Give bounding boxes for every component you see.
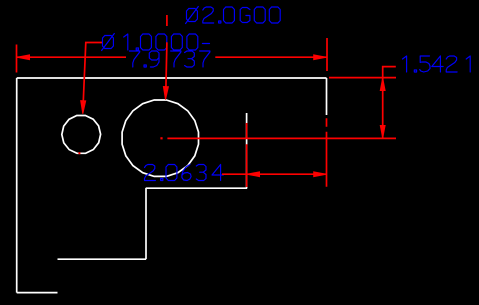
dimension text &#216;1.0000 (small hole) bbox=[102, 34, 198, 51]
part outline bottom-left edge bbox=[17, 292, 58, 294]
dimension line 2.0634 with text stub bbox=[222, 173, 327, 175]
part outline inner right vertical edge (under red) bbox=[246, 113, 248, 188]
arrowhead 2.0634 left bbox=[247, 172, 260, 177]
extension line 1.5421 top bbox=[329, 77, 396, 79]
center line / extension of 1.5421 dim (bottom) bbox=[167, 137, 396, 139]
center mark dot of large hole bbox=[160, 137, 162, 139]
hole circle C2 (large, Ø2) bbox=[122, 100, 198, 176]
leader for &#216;2.0G00 upper segment bbox=[166, 15, 168, 26]
leader arrow into small hole bbox=[81, 101, 86, 114]
hole circle C1 (small, Ø1) bbox=[62, 116, 101, 154]
dimension text 2.0634 bbox=[145, 165, 224, 181]
dimension text &#216;2.0G00 (large hole) bbox=[186, 7, 281, 24]
dimension line 1.5421 vertical with text stub bbox=[383, 67, 396, 139]
part outline left edge bbox=[16, 78, 18, 293]
part outline lower step horizontal edge bbox=[58, 258, 147, 260]
part outline step vertical edge bbox=[145, 188, 147, 259]
leader for &#216;1.0000: hook bbox=[83, 43, 102, 102]
extension line right upper (x=327) bbox=[326, 38, 328, 71]
leader for &#216;2.0G00 lower segment bbox=[166, 42, 167, 88]
extension line segments x=246.6 (over white edge) bbox=[246, 123, 248, 187]
dimension text 7.9737 (overall width) bbox=[129, 51, 210, 67]
arrowhead 1.5421 top bbox=[380, 78, 385, 91]
arrowhead 7.9737 right bbox=[314, 55, 327, 60]
stray dash after &#216;1.0000 bbox=[202, 43, 209, 45]
arrowhead 2.0634 right bbox=[314, 172, 327, 177]
dimension line 7.9737 left segment bbox=[17, 56, 127, 58]
part outline top edge bbox=[17, 77, 327, 79]
arrowhead 1.5421 bottom bbox=[380, 126, 385, 139]
extension line left (7.9737 dim) bbox=[16, 45, 18, 73]
dimension text 1.5421 bbox=[403, 56, 471, 72]
dashed extension line x=326.5 lower bbox=[326, 118, 328, 186]
dot at small hole bottom bbox=[78, 152, 80, 154]
part outline right edge bbox=[326, 78, 328, 115]
part outline mid horizontal edge bbox=[146, 187, 247, 189]
arrowhead 7.9737 left bbox=[17, 55, 30, 60]
dimension line 7.9737 right segment bbox=[215, 56, 326, 58]
leader arrow into large hole bbox=[163, 87, 168, 100]
